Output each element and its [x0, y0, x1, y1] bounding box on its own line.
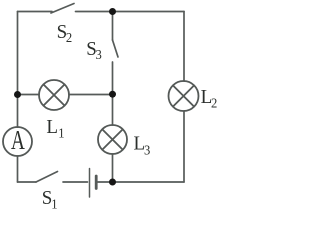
- svg-text:3: 3: [96, 46, 103, 62]
- svg-text:2: 2: [211, 95, 217, 111]
- svg-text:3: 3: [144, 142, 151, 158]
- svg-text:1: 1: [58, 125, 64, 141]
- svg-text:A: A: [11, 126, 25, 156]
- svg-text:L: L: [46, 117, 58, 139]
- svg-text:1: 1: [51, 196, 57, 211]
- svg-text:2: 2: [66, 30, 72, 46]
